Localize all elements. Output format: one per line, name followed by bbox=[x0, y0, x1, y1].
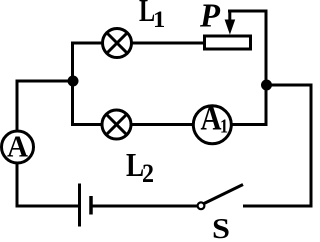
svg-text:A: A bbox=[7, 128, 29, 163]
svg-text:A: A bbox=[201, 99, 223, 138]
svg-text:S: S bbox=[212, 213, 230, 242]
svg-text:P: P bbox=[199, 0, 220, 34]
svg-text:1: 1 bbox=[153, 7, 165, 32]
svg-text:1: 1 bbox=[220, 116, 228, 138]
svg-text:2: 2 bbox=[142, 158, 154, 188]
